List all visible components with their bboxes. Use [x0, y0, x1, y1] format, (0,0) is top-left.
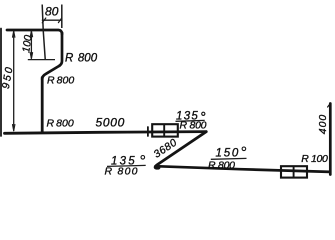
wire: diagonal run 3680	[155, 132, 206, 169]
left scan border bar	[0, 29, 2, 137]
fraction bar 150	[211, 157, 247, 160]
dimension 100: value text	[20, 34, 34, 53]
coupling 1 divider	[163, 124, 165, 136]
dimension 100: dimension line	[30, 31, 32, 59]
degree mark lower 135	[141, 156, 145, 160]
dimension 950: value text	[0, 64, 16, 89]
wire: pipe main vertical run	[41, 78, 44, 132]
dimension 80: dimension line	[42, 19, 62, 21]
svg-text:R 800: R 800	[65, 53, 98, 65]
coupling 2 body	[281, 166, 307, 177]
fraction bar lower 135	[107, 165, 146, 166]
wire: right riser 400	[329, 104, 332, 175]
dimension 80: right extension line	[61, 5, 63, 29]
svg-text:R 800: R 800	[105, 166, 138, 178]
svg-text:R 800: R 800	[47, 117, 74, 129]
dimension 950: dimension line	[13, 31, 15, 131]
dimension 400 value text	[317, 114, 329, 135]
coupling 1 body	[152, 124, 178, 136]
wire: pipe right vertical drop	[59, 33, 62, 66]
degree mark 150	[242, 147, 246, 151]
svg-text:R 100: R 100	[301, 153, 328, 165]
degree mark upper 135	[202, 112, 205, 115]
svg-text:400: 400	[317, 114, 329, 135]
svg-text:80: 80	[45, 4, 59, 18]
wire: offset bend diagonal	[42, 66, 60, 80]
svg-text:5000: 5000	[96, 115, 126, 129]
dimension 950: arrowheads	[13, 31, 15, 131]
riser top tick	[328, 104, 331, 107]
fraction bar upper 135	[176, 119, 205, 122]
svg-text:R 800: R 800	[208, 160, 235, 172]
svg-text:R 800: R 800	[180, 119, 207, 131]
dimension 100: bottom extension tick	[28, 59, 55, 61]
wire: long horizontal run 5000	[5, 132, 207, 134]
dimension 80: end ticks	[42, 18, 62, 23]
svg-text:100: 100	[20, 34, 34, 53]
weld tick before coupling 1	[147, 127, 149, 136]
wire: bottom horizontal run	[156, 166, 331, 172]
dimension 80: left extension line	[42, 5, 45, 60]
coupling 2 divider	[293, 166, 295, 177]
wire: pipe top horizontal run	[7, 30, 62, 34]
dimension 100: arrowheads	[30, 31, 32, 59]
svg-text:150: 150	[216, 148, 241, 160]
svg-text:R 800: R 800	[47, 75, 74, 87]
label 3680 along diagonal	[152, 137, 180, 161]
